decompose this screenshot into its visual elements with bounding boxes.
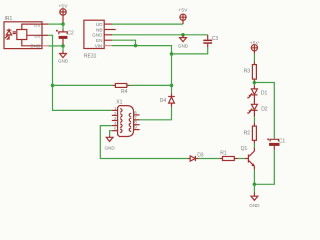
wire C3 bottom to VIN vertical bbox=[172, 47, 208, 54]
svg-text:IR1: IR1 bbox=[5, 16, 13, 22]
diode D4 bbox=[160, 93, 175, 107]
IR receiver IR1 bbox=[4, 16, 48, 49]
wire X1 pin 4 to D3 bbox=[100, 126, 188, 159]
svg-text:R2: R2 bbox=[244, 131, 251, 137]
capacitor C1 bbox=[267, 138, 285, 150]
svg-text:D1: D1 bbox=[261, 90, 268, 96]
wire VIN pin bbox=[112, 46, 172, 54]
wire D4 to X1 pin 7 bbox=[140, 107, 172, 120]
wire R1 to Q1 base bbox=[238, 158, 245, 160]
svg-text:D3: D3 bbox=[197, 153, 204, 159]
wire UD pin to +5V bbox=[112, 23, 183, 25]
pin 2 stub bbox=[112, 114, 118, 116]
wire emitter down bbox=[253, 170, 255, 185]
pin 5 stub bbox=[112, 130, 118, 132]
LED D1 bbox=[247, 85, 267, 99]
pin 7 stub bbox=[134, 119, 140, 121]
wire C1 to emitter node bbox=[254, 150, 274, 184]
node junction bbox=[170, 84, 174, 88]
resistor R1 bbox=[220, 151, 238, 161]
ground under Q1 bbox=[249, 192, 260, 208]
pin 4 stub bbox=[112, 125, 118, 127]
svg-text:NB: NB bbox=[96, 27, 102, 32]
diode D3 bbox=[188, 153, 204, 162]
wire Us to +5V node bbox=[48, 23, 63, 25]
node junction bbox=[134, 44, 138, 48]
node junction bbox=[61, 22, 65, 26]
svg-text:+5V: +5V bbox=[178, 8, 188, 14]
node junction bbox=[51, 84, 55, 88]
pin 3 stub bbox=[112, 120, 118, 122]
transistor Q1 bbox=[241, 146, 255, 170]
wire D2 to R2 bbox=[253, 117, 255, 123]
svg-text:GND: GND bbox=[92, 33, 103, 38]
capacitor C2 bbox=[56, 29, 74, 46]
svg-text:R1: R1 bbox=[220, 151, 227, 157]
resistor R4 bbox=[113, 84, 130, 96]
node junction bbox=[170, 52, 174, 56]
wire node to C1 bbox=[254, 83, 274, 139]
wire R4 to VIN node bbox=[130, 84, 172, 86]
resistor R2 bbox=[244, 123, 257, 144]
LED D2 bbox=[247, 95, 268, 117]
connector X1 (DB9) bbox=[112, 100, 140, 137]
svg-text:C2: C2 bbox=[67, 31, 74, 37]
ground under RE31 net bbox=[178, 35, 189, 49]
wire X1 pin 5 to ground bbox=[110, 131, 112, 136]
svg-text:GND: GND bbox=[178, 43, 189, 48]
svg-text:X1: X1 bbox=[116, 100, 122, 106]
receiver module RE31 bbox=[84, 20, 116, 60]
svg-text:UD: UD bbox=[96, 22, 103, 27]
wire EN pin joins VIN bbox=[112, 40, 136, 45]
wire D3 to R1 bbox=[199, 158, 220, 160]
svg-text:R3: R3 bbox=[244, 69, 251, 75]
svg-text:GND: GND bbox=[249, 203, 260, 208]
+5V supply (middle) bbox=[178, 8, 188, 24]
svg-text:U0: U0 bbox=[34, 33, 40, 38]
svg-text:R4: R4 bbox=[121, 89, 128, 95]
svg-text:D4: D4 bbox=[160, 98, 167, 104]
ground under C2 bbox=[58, 51, 69, 64]
resistor R3 bbox=[244, 61, 257, 82]
pin 6 stub bbox=[134, 114, 140, 116]
+5V supply (right) bbox=[250, 41, 260, 54]
svg-text:GND: GND bbox=[30, 44, 41, 49]
node junction bbox=[253, 81, 257, 85]
wire bbox=[62, 46, 64, 51]
wire IR1 GND pin to node bbox=[48, 45, 63, 47]
wire +5V to R3 bbox=[253, 54, 255, 62]
svg-text:US: US bbox=[34, 22, 40, 27]
svg-text:GND: GND bbox=[58, 59, 69, 64]
pin 9 stub bbox=[134, 129, 140, 131]
svg-text:C3: C3 bbox=[212, 36, 219, 42]
wire bbox=[62, 24, 64, 29]
svg-text:GND: GND bbox=[104, 146, 115, 151]
wire VIN vertical down bbox=[171, 54, 173, 93]
wire to ground bbox=[253, 184, 255, 192]
svg-text:D2: D2 bbox=[261, 106, 268, 112]
+5V supply (left) bbox=[58, 4, 68, 24]
svg-text:Q1: Q1 bbox=[241, 146, 248, 152]
ground under X1 pin 5 bbox=[104, 135, 115, 150]
wire collector bbox=[253, 144, 255, 148]
svg-text:C1: C1 bbox=[279, 138, 286, 144]
svg-text:VIN: VIN bbox=[95, 44, 103, 49]
node junction bbox=[253, 183, 257, 187]
wire GND pin to C3 bbox=[112, 34, 208, 36]
wire to R4 bbox=[53, 84, 113, 86]
wire U0 pin down-left vertical bbox=[48, 35, 112, 110]
pin 8 stub bbox=[134, 124, 140, 126]
node junction bbox=[181, 33, 185, 37]
capacitor C3 bbox=[203, 35, 218, 48]
node junction bbox=[61, 44, 65, 48]
pin 1 stub bbox=[112, 109, 118, 111]
svg-text:EN: EN bbox=[96, 38, 102, 43]
wire R3 to D1 node bbox=[253, 83, 255, 86]
svg-text:RE31: RE31 bbox=[84, 54, 97, 60]
